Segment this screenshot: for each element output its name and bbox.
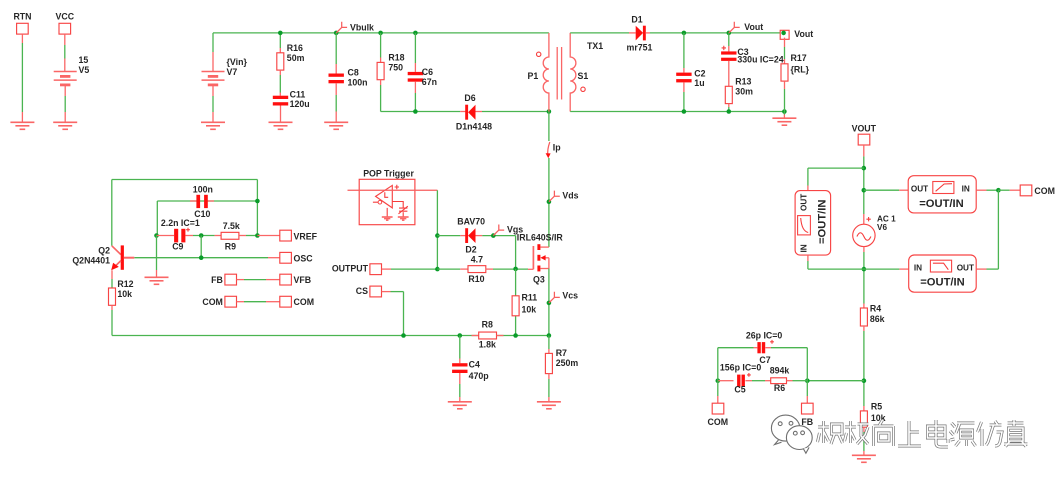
node bbox=[513, 267, 518, 272]
wire bbox=[863, 326, 865, 331]
wire bbox=[111, 270, 113, 279]
resistor R5 bbox=[860, 411, 867, 427]
node Vbulk bbox=[334, 31, 339, 36]
svg-text:IN: IN bbox=[800, 244, 809, 252]
probe Vcs bbox=[549, 292, 560, 303]
node bbox=[255, 233, 260, 238]
wire bbox=[64, 85, 66, 96]
svg-text:FB: FB bbox=[211, 275, 223, 285]
ground bbox=[53, 122, 77, 129]
resistor R11 bbox=[515, 269, 517, 336]
transformer TX1 primary P1 bbox=[543, 33, 549, 112]
capacitor (pop internal) bbox=[392, 202, 403, 208]
svg-text:C7: C7 bbox=[759, 355, 770, 365]
node Vgs bbox=[491, 233, 496, 238]
node bbox=[716, 378, 721, 383]
watermark logo bbox=[771, 415, 812, 453]
svg-text:R5: R5 bbox=[871, 401, 882, 411]
wire bbox=[570, 32, 629, 34]
node bbox=[862, 166, 867, 171]
ground bbox=[852, 455, 876, 462]
wire bbox=[863, 145, 865, 156]
wire bbox=[548, 112, 550, 142]
svg-text:R12: R12 bbox=[117, 279, 133, 289]
resistor R7 bbox=[545, 353, 552, 373]
wire bbox=[246, 235, 257, 237]
svg-text:R8: R8 bbox=[482, 319, 493, 329]
wire bbox=[493, 268, 528, 270]
wire bbox=[807, 255, 809, 261]
svg-text:10k: 10k bbox=[117, 289, 132, 299]
capacitor C6 bbox=[408, 72, 423, 75]
svg-text:C9: C9 bbox=[172, 241, 183, 251]
svg-text:IN: IN bbox=[914, 263, 922, 272]
terminal VREF bbox=[280, 230, 292, 241]
svg-text:R10: R10 bbox=[468, 274, 484, 284]
node bbox=[199, 233, 204, 238]
svg-text:RTN: RTN bbox=[13, 12, 31, 22]
node bbox=[727, 109, 732, 114]
svg-text:C4: C4 bbox=[469, 359, 480, 369]
svg-text:Vcs: Vcs bbox=[562, 291, 578, 301]
node bbox=[413, 31, 418, 36]
resistor R17 bbox=[781, 64, 788, 81]
svg-text:2.2n IC=1: 2.2n IC=1 bbox=[161, 218, 200, 228]
ground bbox=[10, 122, 34, 129]
svg-text:750: 750 bbox=[388, 63, 403, 73]
svg-text:Vds: Vds bbox=[562, 190, 578, 200]
mosfet Q3 IRL640S/IR bbox=[532, 246, 534, 269]
wire bbox=[650, 32, 780, 34]
wire bbox=[459, 373, 461, 384]
resistor R6 bbox=[765, 380, 771, 382]
wire bbox=[482, 111, 549, 113]
svg-text:15: 15 bbox=[79, 55, 89, 65]
svg-text:Vgs: Vgs bbox=[507, 224, 523, 234]
wire bbox=[752, 380, 765, 382]
probe Vbulk bbox=[336, 22, 347, 33]
svg-text:{Vin}: {Vin} bbox=[227, 57, 248, 67]
wire bbox=[548, 374, 550, 379]
wire bbox=[380, 80, 382, 85]
wire bbox=[212, 33, 214, 52]
wire bbox=[157, 200, 257, 202]
svg-text:Vout: Vout bbox=[794, 29, 813, 39]
ground bbox=[448, 402, 472, 409]
resistor R4 bbox=[860, 308, 867, 326]
wire bbox=[380, 33, 382, 58]
wire bbox=[382, 291, 391, 293]
svg-text:V6: V6 bbox=[877, 223, 887, 232]
svg-text:R6: R6 bbox=[774, 383, 785, 393]
svg-text:1.8k: 1.8k bbox=[479, 339, 496, 349]
node bbox=[682, 109, 687, 114]
node bbox=[154, 233, 159, 238]
svg-text:V7: V7 bbox=[227, 67, 238, 77]
ground bbox=[772, 118, 796, 125]
node bbox=[862, 188, 867, 193]
capacitor C3 bbox=[721, 51, 736, 54]
node bbox=[547, 109, 552, 114]
terminal COM bbox=[280, 296, 292, 307]
svg-text:C8: C8 bbox=[348, 67, 359, 77]
wire bbox=[112, 179, 258, 181]
watermark text bbox=[818, 420, 1028, 447]
svg-text:67n: 67n bbox=[422, 77, 437, 87]
svg-text:D1n4148: D1n4148 bbox=[456, 121, 492, 131]
wire bbox=[414, 33, 416, 63]
wire bbox=[279, 33, 281, 48]
transformer TX1 secondary S1 bbox=[570, 33, 576, 112]
wire bbox=[793, 380, 808, 382]
svg-text:30m: 30m bbox=[735, 86, 753, 96]
svg-text:FB: FB bbox=[801, 417, 813, 427]
wire bbox=[381, 111, 461, 113]
node bbox=[435, 233, 440, 238]
svg-text:P1: P1 bbox=[528, 71, 539, 81]
capacitor C4 bbox=[452, 363, 467, 366]
capacitor C7 loop bbox=[717, 348, 719, 381]
svg-text:POP Trigger: POP Trigger bbox=[363, 168, 414, 178]
op-amp U1 bbox=[376, 185, 393, 208]
wire bbox=[111, 305, 113, 310]
block =OUT/IN (bottom) bbox=[899, 268, 908, 270]
wire bbox=[997, 190, 999, 269]
wire bbox=[200, 236, 202, 258]
svg-text:CS: CS bbox=[356, 286, 368, 296]
ground bbox=[398, 217, 409, 220]
svg-text:250m: 250m bbox=[556, 358, 579, 368]
node bbox=[278, 31, 283, 36]
wire bbox=[237, 301, 245, 303]
svg-text:C2: C2 bbox=[694, 68, 705, 78]
wire bbox=[807, 168, 809, 185]
node bbox=[727, 31, 732, 36]
wire bbox=[436, 190, 438, 269]
svg-text:{RL}: {RL} bbox=[791, 65, 810, 75]
svg-text:Vbulk: Vbulk bbox=[350, 22, 374, 32]
ground bbox=[145, 277, 169, 284]
wire bbox=[808, 268, 900, 270]
svg-text:COM: COM bbox=[202, 297, 223, 307]
svg-text:IRL640S/IR: IRL640S/IR bbox=[517, 233, 564, 243]
wire bbox=[808, 167, 864, 169]
terminal FB (fb) bbox=[806, 381, 808, 396]
resistor R9 bbox=[215, 235, 222, 237]
capacitor C2 bbox=[676, 73, 691, 76]
resistor R16 bbox=[277, 53, 284, 70]
svg-text:mr751: mr751 bbox=[627, 43, 653, 53]
transformer core bbox=[556, 47, 558, 100]
wire bbox=[515, 236, 517, 269]
resistor R10 bbox=[460, 268, 468, 270]
resistor R8 bbox=[472, 335, 479, 337]
diode D6 D1n4148 bbox=[460, 111, 466, 113]
probe Vds bbox=[549, 191, 560, 202]
svg-text:R11: R11 bbox=[522, 292, 538, 302]
svg-text:D6: D6 bbox=[464, 93, 475, 103]
svg-text:D2: D2 bbox=[465, 244, 476, 254]
svg-text:OUT: OUT bbox=[957, 263, 974, 272]
node bbox=[805, 378, 810, 383]
svg-text:R17: R17 bbox=[791, 53, 807, 63]
svg-text:S1: S1 bbox=[578, 71, 589, 81]
svg-text:Ip: Ip bbox=[553, 142, 561, 152]
wire bbox=[237, 279, 245, 281]
svg-text:COM: COM bbox=[294, 297, 315, 307]
wire bbox=[193, 235, 215, 237]
svg-text:100n: 100n bbox=[348, 77, 368, 87]
wire bbox=[335, 33, 337, 64]
wire bbox=[863, 427, 865, 432]
capacitor C8 bbox=[329, 74, 344, 77]
svg-text:D1: D1 bbox=[631, 15, 642, 25]
terminal OSC bbox=[280, 252, 292, 263]
probe Vgs bbox=[493, 225, 504, 236]
node bbox=[862, 267, 867, 272]
transistor Q2 Q2N4401 bbox=[112, 246, 121, 255]
svg-text:1u: 1u bbox=[694, 78, 704, 88]
svg-text:4.7: 4.7 bbox=[471, 255, 483, 265]
svg-text:26p IC=0: 26p IC=0 bbox=[746, 331, 783, 341]
terminal RTN bbox=[17, 23, 29, 34]
wire bbox=[784, 81, 786, 89]
node bbox=[782, 109, 787, 114]
node Vcs bbox=[547, 301, 552, 306]
wire bbox=[783, 112, 785, 115]
svg-text:156p IC=0: 156p IC=0 bbox=[720, 362, 761, 372]
wire bbox=[256, 180, 258, 236]
node bbox=[255, 199, 260, 204]
capacitor C5 bbox=[718, 380, 734, 382]
node bbox=[378, 31, 383, 36]
wire bbox=[280, 106, 282, 123]
wire bbox=[863, 247, 865, 252]
svg-text:470p: 470p bbox=[469, 371, 490, 381]
svg-text:VFB: VFB bbox=[294, 275, 312, 285]
wire bbox=[683, 82, 685, 92]
svg-text:C6: C6 bbox=[422, 67, 433, 77]
wire bbox=[728, 104, 730, 107]
wire bbox=[112, 335, 549, 337]
node bbox=[199, 255, 204, 260]
wire bbox=[548, 158, 550, 247]
svg-text:=OUT/IN: =OUT/IN bbox=[920, 277, 964, 289]
resistor R12 bbox=[109, 288, 116, 305]
ground bbox=[201, 122, 225, 129]
wire bbox=[864, 189, 899, 191]
svg-text:VCC: VCC bbox=[56, 12, 75, 22]
svg-text:BAV70: BAV70 bbox=[457, 216, 485, 226]
wire bbox=[257, 235, 279, 237]
wire bbox=[437, 235, 460, 237]
wire bbox=[111, 180, 113, 246]
svg-text:R4: R4 bbox=[870, 303, 881, 313]
node bbox=[996, 188, 1001, 193]
wire bbox=[998, 189, 1009, 191]
svg-text:TX1: TX1 bbox=[587, 41, 603, 51]
ground bbox=[537, 402, 561, 409]
node bbox=[682, 31, 687, 36]
wire trigger input bbox=[348, 189, 438, 191]
wire bbox=[482, 235, 515, 237]
svg-text:Q3: Q3 bbox=[533, 275, 545, 285]
wire bbox=[156, 201, 158, 236]
resistor R18 bbox=[377, 62, 384, 79]
wire bbox=[683, 33, 685, 68]
diode D1 mr751 bbox=[629, 32, 636, 34]
svg-text:86k: 86k bbox=[870, 314, 885, 324]
wire bbox=[548, 269, 550, 336]
svg-text:COM: COM bbox=[708, 417, 729, 427]
wire bbox=[386, 208, 388, 217]
svg-text:IN: IN bbox=[962, 184, 970, 193]
wire bbox=[134, 257, 268, 259]
terminal Vout bbox=[780, 30, 789, 39]
wire bbox=[64, 34, 66, 45]
svg-text:=OUT/IN: =OUT/IN bbox=[919, 198, 963, 210]
svg-text:R16: R16 bbox=[287, 43, 303, 53]
resistor R13 bbox=[725, 86, 732, 103]
probe Vout bbox=[729, 22, 740, 33]
node bbox=[513, 333, 518, 338]
battery V5 bbox=[54, 72, 77, 85]
voltage source V6 AC bbox=[853, 224, 875, 246]
wire bbox=[279, 70, 281, 75]
svg-text:10k: 10k bbox=[522, 304, 537, 314]
svg-text:50m: 50m bbox=[287, 53, 305, 63]
wire bbox=[807, 380, 864, 382]
wire Vbulk rail bbox=[213, 32, 549, 34]
node bbox=[435, 267, 440, 272]
node bbox=[862, 378, 867, 383]
block =OUT/IN (vertical) bbox=[795, 191, 831, 256]
svg-text:OUT: OUT bbox=[800, 194, 809, 211]
svg-text:120u: 120u bbox=[290, 99, 310, 109]
wire bbox=[156, 236, 158, 271]
svg-text:C11: C11 bbox=[290, 90, 306, 100]
capacitor C9 bbox=[157, 235, 175, 237]
svg-text:VOUT: VOUT bbox=[852, 123, 877, 133]
svg-text:Q2: Q2 bbox=[98, 245, 110, 255]
wire bbox=[382, 268, 391, 270]
node bbox=[401, 333, 406, 338]
node Vds bbox=[547, 199, 552, 204]
svg-text:R13: R13 bbox=[735, 76, 751, 86]
wire bbox=[728, 33, 730, 46]
svg-text:C5: C5 bbox=[734, 384, 745, 394]
svg-text:Q2N4401: Q2N4401 bbox=[72, 255, 110, 265]
wire bbox=[268, 257, 280, 259]
block =OUT/IN (top) bbox=[899, 189, 908, 191]
wire bbox=[570, 111, 784, 113]
capacitor C10 bbox=[190, 200, 196, 202]
svg-text:V5: V5 bbox=[79, 65, 90, 75]
svg-text:Vout: Vout bbox=[744, 22, 763, 32]
svg-text:894k: 894k bbox=[770, 366, 790, 376]
svg-text:R7: R7 bbox=[556, 348, 567, 358]
diode D2 BAV70 bbox=[460, 235, 465, 237]
wire bbox=[414, 82, 416, 93]
svg-text:OUT: OUT bbox=[911, 184, 928, 193]
probe Ip bbox=[548, 142, 550, 156]
wire bbox=[987, 268, 999, 270]
svg-text:OSC: OSC bbox=[294, 253, 314, 263]
terminal COM (fb) bbox=[717, 381, 719, 396]
capacitor C11 bbox=[273, 96, 288, 99]
wire bbox=[212, 85, 214, 96]
svg-text:OUTPUT: OUTPUT bbox=[332, 263, 369, 273]
wire bbox=[459, 336, 461, 359]
ground bbox=[382, 217, 393, 220]
svg-text:330u IC=24: 330u IC=24 bbox=[737, 55, 783, 65]
wire bbox=[548, 336, 550, 350]
node bbox=[413, 109, 418, 114]
terminal VFB bbox=[280, 274, 292, 285]
wire bbox=[784, 38, 786, 47]
svg-text:VREF: VREF bbox=[294, 232, 318, 242]
ground bbox=[324, 122, 348, 129]
svg-text:7.5k: 7.5k bbox=[223, 221, 240, 231]
svg-text:R9: R9 bbox=[225, 241, 236, 251]
wire bbox=[437, 268, 460, 270]
svg-text:R18: R18 bbox=[388, 53, 404, 63]
battery V7 bbox=[212, 52, 214, 72]
wire bbox=[728, 61, 730, 86]
ground bbox=[269, 122, 293, 129]
svg-text:100n: 100n bbox=[193, 184, 213, 194]
wire bbox=[987, 189, 999, 191]
svg-text:COM: COM bbox=[1034, 186, 1055, 196]
terminal VCC bbox=[59, 23, 71, 34]
node bbox=[458, 333, 463, 338]
wire bbox=[21, 34, 23, 43]
node bbox=[547, 333, 552, 338]
wire bbox=[335, 83, 337, 95]
svg-text:=OUT/IN: =OUT/IN bbox=[817, 200, 829, 244]
terminal COM right bbox=[1020, 185, 1032, 196]
